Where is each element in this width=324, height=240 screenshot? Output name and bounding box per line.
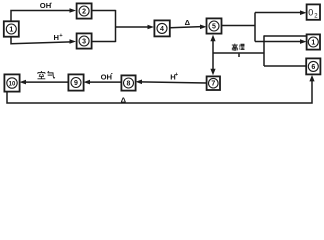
- wire ④ to ⑤ (condition Δ): [170, 27, 202, 28]
- svg-text:10: 10: [9, 81, 16, 87]
- svg-text:5: 5: [212, 24, 216, 31]
- svg-text:H: H: [54, 33, 59, 42]
- tick below 高温 line: [238, 54, 240, 57]
- arrowhead up into ⑥: [309, 75, 314, 81]
- svg-text:Δ: Δ: [185, 18, 191, 27]
- wire ⑨ to ⑩ (condition 空气): [24, 81, 69, 83]
- node box ⑦: [207, 76, 220, 90]
- wire merge B to junction (condition 高温): [213, 52, 264, 54]
- label OH-: [40, 1, 52, 10]
- wire ② to merge: [92, 10, 116, 12]
- node box ① left: [4, 21, 19, 36]
- arrowhead into ④: [148, 25, 155, 30]
- wire A to O2 box: [255, 12, 302, 14]
- vertical C: junction up into ⑤ and down into ⑦: [212, 39, 214, 72]
- svg-text:8: 8: [127, 81, 131, 88]
- label H+: [54, 33, 64, 42]
- arrowhead up into ⑤: [210, 35, 215, 41]
- svg-text:-: -: [111, 72, 113, 78]
- node box ⑩: [4, 74, 19, 91]
- branch vertical A: [254, 13, 256, 42]
- svg-text:4: 4: [160, 26, 164, 33]
- wire ① to ③ (condition H+): [11, 37, 71, 44]
- wire ⑦ to ⑧ (condition H+): [140, 82, 207, 83]
- node box ④: [154, 20, 169, 36]
- svg-text:9: 9: [74, 80, 78, 87]
- svg-text:2: 2: [82, 9, 86, 16]
- svg-text:-: -: [50, 1, 52, 7]
- wire ① to ② (condition OH-): [11, 11, 71, 22]
- node box ① right: [307, 34, 320, 49]
- label 空气 (drawn glyphs): [38, 71, 55, 79]
- node box O2: [307, 4, 320, 19]
- label H+ (bottom): [170, 72, 179, 82]
- node box ⑨: [68, 74, 83, 90]
- wire ⑥ out to merge B: [264, 65, 307, 67]
- label OH- (bottom): [101, 72, 113, 82]
- arrowhead down into ⑦: [210, 69, 215, 75]
- merge vertical B: [263, 35, 265, 66]
- arrowhead into ⑤: [200, 25, 207, 30]
- node box ②: [77, 3, 92, 18]
- label 高温 (drawn glyphs): [232, 44, 245, 51]
- wire ③ to merge: [92, 41, 116, 43]
- svg-text:1: 1: [311, 40, 315, 47]
- node box ⑤: [207, 18, 222, 33]
- arrowhead into ① right: [300, 39, 307, 44]
- wire ⑤ to branch vertical A: [222, 25, 255, 27]
- svg-text:0: 0: [308, 7, 313, 17]
- arrowhead into ⑧: [136, 80, 143, 85]
- svg-text:6: 6: [311, 64, 315, 71]
- wire ① right out to merge B: [264, 35, 307, 37]
- svg-text:3: 3: [82, 39, 86, 46]
- svg-text:+: +: [175, 72, 179, 78]
- svg-text:Δ: Δ: [121, 95, 127, 104]
- arrowhead into ③: [70, 39, 77, 44]
- wire A to ① right: [255, 41, 302, 43]
- bottom wire ⑩ to ⑥ (condition Δ): [7, 79, 312, 104]
- arrowhead into ⑨: [84, 80, 91, 85]
- merge vertical ②③: [115, 10, 117, 42]
- arrowhead into ②: [70, 8, 77, 13]
- node box ③: [77, 33, 92, 48]
- svg-text:7: 7: [211, 81, 215, 88]
- svg-text:1: 1: [9, 27, 13, 34]
- arrowhead into ⑩: [20, 80, 27, 85]
- node box ⑧: [121, 75, 135, 90]
- wire ⑧ to ⑨ (condition OH-): [88, 81, 122, 83]
- wire merge to ④: [116, 26, 150, 28]
- arrowhead into O2: [300, 10, 307, 15]
- node box ⑥: [306, 58, 320, 74]
